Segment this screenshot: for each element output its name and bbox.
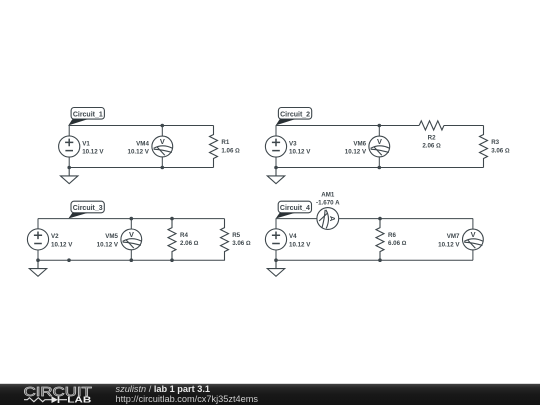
svg-text:V3: V3 <box>289 140 297 147</box>
ammeter AM1 <box>316 191 340 229</box>
junction dot V3 bottom <box>274 166 278 170</box>
svg-text:VM4: VM4 <box>136 140 149 147</box>
svg-text:VM6: VM6 <box>353 140 366 147</box>
svg-text:10.12 V: 10.12 V <box>97 241 119 248</box>
resistor R5 <box>221 219 251 261</box>
svg-text:Circuit_4: Circuit_4 <box>280 205 310 212</box>
svg-text:R4: R4 <box>180 232 188 239</box>
junction dot V4 bottom <box>274 258 278 262</box>
resistor R4 <box>168 219 199 261</box>
svg-text:VM7: VM7 <box>447 233 460 240</box>
wire top rail circuit 4 right <box>339 218 473 220</box>
svg-text:V1: V1 <box>82 140 90 147</box>
svg-text:R5: R5 <box>232 232 240 239</box>
junction dot R4 top <box>170 217 174 221</box>
wire bottom rail circuit 4 <box>276 259 473 261</box>
svg-text:V: V <box>160 137 165 146</box>
junction dot R4 bottom <box>170 258 174 262</box>
svg-text:Circuit_2: Circuit_2 <box>280 111 310 118</box>
node flag Circuit_2 <box>276 108 312 126</box>
svg-text:V: V <box>377 137 382 146</box>
svg-text:10.12 V: 10.12 V <box>345 148 367 155</box>
wire bottom rail circuit 3 <box>38 259 225 261</box>
ground circuit 4 <box>267 260 284 276</box>
svg-text:VM5: VM5 <box>105 233 118 240</box>
svg-text:10.12 V: 10.12 V <box>289 148 311 155</box>
voltage source V2 <box>27 219 73 261</box>
svg-text:szulistn / lab 1 part 3.1: szulistn / lab 1 part 3.1 <box>116 384 210 394</box>
voltmeter VM5 <box>97 219 142 261</box>
node flag Circuit_1 <box>68 108 104 126</box>
svg-text:10.12 V: 10.12 V <box>82 148 104 155</box>
svg-text:-1.670 A: -1.670 A <box>316 199 340 206</box>
voltage source V4 <box>265 219 311 261</box>
junction dot VM6 bottom <box>378 166 382 170</box>
ground circuit 1 <box>60 168 77 184</box>
svg-text:6.06 Ω: 6.06 Ω <box>388 240 407 247</box>
svg-text:10.12 V: 10.12 V <box>128 148 150 155</box>
wire top rail circuit 3 <box>38 218 225 220</box>
junction dot R6 top <box>378 217 382 221</box>
wire top rail circuit 1 <box>68 125 213 127</box>
svg-text:3.06 Ω: 3.06 Ω <box>232 240 251 247</box>
junction dot bottom rail circuit 3 <box>67 258 71 262</box>
junction dot VM4 bottom <box>161 166 165 170</box>
junction dot V2 bottom <box>36 258 40 262</box>
svg-text:Circuit_3: Circuit_3 <box>73 205 103 212</box>
svg-text:10.12 V: 10.12 V <box>438 241 460 248</box>
CircuitLab logo diode symbol <box>52 396 68 403</box>
svg-text:R6: R6 <box>388 232 396 239</box>
junction dot VM6 top <box>378 124 382 128</box>
wire bottom rail circuit 1 <box>69 167 213 169</box>
junction dot VM5 top <box>130 217 134 221</box>
ground circuit 2 <box>267 168 284 184</box>
svg-text:Circuit_1: Circuit_1 <box>73 111 103 118</box>
svg-text:R3: R3 <box>491 139 499 146</box>
svg-text:2.06 Ω: 2.06 Ω <box>422 143 441 150</box>
node flag Circuit_3 <box>68 201 104 218</box>
node flag Circuit_4 <box>276 201 312 218</box>
voltmeter VM7 <box>438 219 483 261</box>
svg-text:V4: V4 <box>289 233 297 240</box>
footer background bar <box>0 384 540 405</box>
junction dot VM5 bottom <box>130 258 134 262</box>
svg-text:V: V <box>471 230 476 239</box>
svg-text:http://circuitlab.com/cx7kj35z: http://circuitlab.com/cx7kj35zt4ems <box>116 394 259 404</box>
svg-text:3.06 Ω: 3.06 Ω <box>491 147 510 154</box>
junction dot V1 bottom <box>67 166 71 170</box>
voltmeter VM4 <box>128 126 173 168</box>
svg-text:AM1: AM1 <box>321 191 335 198</box>
voltmeter VM6 <box>345 125 390 167</box>
wire top rail circuit 4 left <box>276 218 317 220</box>
svg-text:1.06 Ω: 1.06 Ω <box>221 147 240 154</box>
voltage source V1 <box>59 125 105 167</box>
svg-text:10.12 V: 10.12 V <box>51 241 73 248</box>
svg-text:10.12 V: 10.12 V <box>289 241 311 248</box>
svg-text:R2: R2 <box>428 134 436 141</box>
svg-text:V: V <box>129 230 134 239</box>
svg-text:V2: V2 <box>51 233 59 240</box>
svg-text:LAB: LAB <box>67 395 91 405</box>
svg-text:2.06 Ω: 2.06 Ω <box>180 240 199 247</box>
voltage source V3 <box>265 125 311 167</box>
wire top rail circuit 2 right <box>444 125 484 127</box>
resistor R1 <box>210 126 241 168</box>
junction dot R6 bottom <box>378 258 382 262</box>
ground circuit 3 <box>29 260 46 276</box>
resistor R2 <box>419 121 444 150</box>
wire bottom rail circuit 2 <box>276 167 484 169</box>
svg-text:R1: R1 <box>221 139 229 146</box>
svg-text:A: A <box>328 216 337 222</box>
junction dot VM4 top <box>161 124 165 128</box>
resistor R3 <box>480 126 510 168</box>
CircuitLab logo resistor zigzag <box>24 398 52 402</box>
resistor R6 <box>376 219 407 261</box>
wire top rail circuit 2 left <box>276 125 420 127</box>
